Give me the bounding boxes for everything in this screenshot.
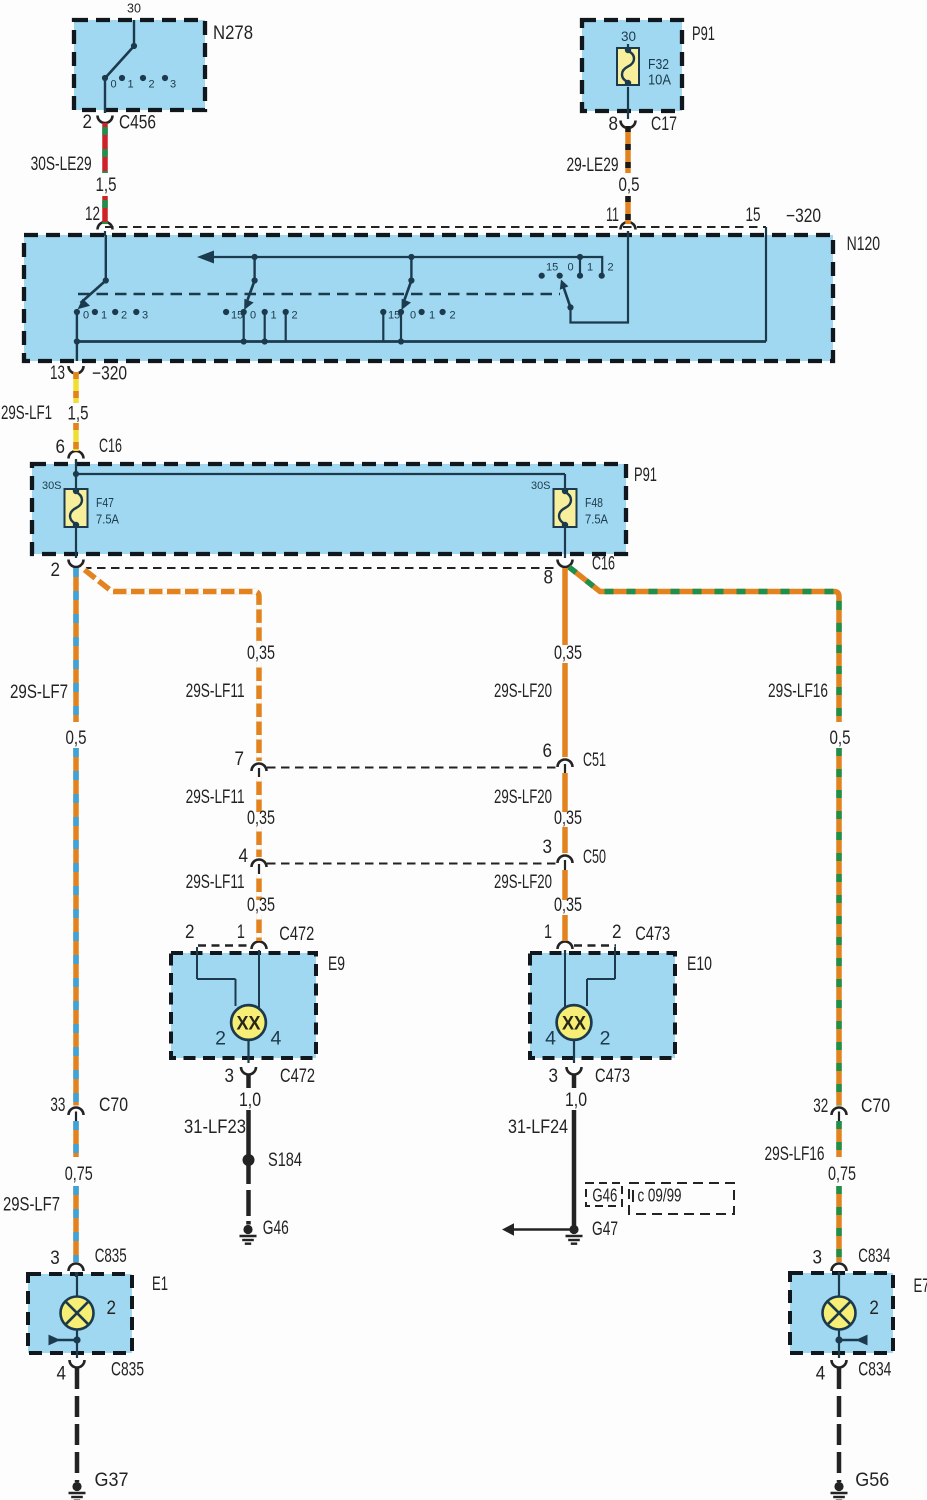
svg-text:0,5: 0,5 bbox=[619, 174, 640, 196]
svg-text:0,35: 0,35 bbox=[247, 807, 275, 829]
svg-text:C834: C834 bbox=[858, 1245, 890, 1267]
svg-text:3: 3 bbox=[50, 1247, 60, 1269]
svg-text:C17: C17 bbox=[651, 113, 677, 135]
svg-text:2: 2 bbox=[121, 310, 127, 322]
svg-text:G56: G56 bbox=[855, 1469, 889, 1491]
svg-text:1,5: 1,5 bbox=[96, 174, 117, 196]
svg-text:29S-LF11: 29S-LF11 bbox=[186, 680, 245, 702]
svg-text:1: 1 bbox=[271, 310, 277, 322]
svg-text:1,0: 1,0 bbox=[565, 1089, 587, 1111]
svg-text:0,35: 0,35 bbox=[247, 642, 275, 664]
svg-text:C51: C51 bbox=[583, 749, 606, 771]
svg-text:29S-LF16: 29S-LF16 bbox=[765, 1143, 825, 1165]
svg-text:3: 3 bbox=[142, 310, 148, 322]
svg-text:C835: C835 bbox=[111, 1359, 144, 1381]
svg-text:0,35: 0,35 bbox=[554, 807, 582, 829]
svg-text:C473: C473 bbox=[635, 923, 670, 945]
svg-text:7.5A: 7.5A bbox=[585, 513, 609, 527]
svg-text:C70: C70 bbox=[99, 1094, 128, 1116]
svg-text:3: 3 bbox=[170, 79, 176, 91]
svg-text:29S-LF1: 29S-LF1 bbox=[1, 402, 52, 424]
svg-text:C472: C472 bbox=[279, 923, 314, 945]
svg-text:10A: 10A bbox=[648, 73, 671, 89]
svg-text:P91: P91 bbox=[692, 23, 715, 45]
svg-text:8: 8 bbox=[609, 113, 619, 135]
svg-text:30: 30 bbox=[127, 2, 141, 16]
svg-text:G47: G47 bbox=[592, 1218, 618, 1240]
svg-text:N278: N278 bbox=[213, 22, 253, 44]
svg-text:−320: −320 bbox=[786, 205, 821, 227]
svg-text:N120: N120 bbox=[847, 233, 881, 255]
svg-text:2: 2 bbox=[51, 559, 61, 581]
svg-text:4: 4 bbox=[271, 1028, 282, 1050]
svg-text:G46: G46 bbox=[263, 1217, 289, 1239]
svg-text:C16: C16 bbox=[592, 553, 615, 575]
svg-text:0,5: 0,5 bbox=[66, 727, 87, 749]
svg-text:0,35: 0,35 bbox=[554, 642, 582, 664]
svg-text:1,0: 1,0 bbox=[239, 1089, 261, 1111]
svg-text:3: 3 bbox=[225, 1065, 235, 1087]
svg-text:12: 12 bbox=[85, 203, 100, 225]
svg-text:C70: C70 bbox=[861, 1095, 890, 1117]
svg-text:33: 33 bbox=[50, 1094, 65, 1116]
svg-text:2: 2 bbox=[608, 262, 614, 274]
svg-text:S184: S184 bbox=[268, 1149, 302, 1171]
svg-text:30: 30 bbox=[621, 29, 636, 44]
svg-text:0: 0 bbox=[410, 310, 416, 322]
svg-text:0,35: 0,35 bbox=[554, 894, 582, 916]
svg-text:0: 0 bbox=[250, 310, 256, 322]
svg-text:2: 2 bbox=[107, 1297, 117, 1319]
svg-text:31-LF24: 31-LF24 bbox=[508, 1116, 568, 1138]
svg-text:G46: G46 bbox=[592, 1186, 617, 1206]
svg-text:0: 0 bbox=[111, 79, 117, 91]
svg-text:15: 15 bbox=[231, 310, 243, 322]
svg-text:29S-LF7: 29S-LF7 bbox=[3, 1194, 60, 1216]
svg-text:29S-LF20: 29S-LF20 bbox=[494, 871, 552, 893]
svg-text:C834: C834 bbox=[858, 1359, 891, 1381]
svg-text:7.5A: 7.5A bbox=[96, 513, 120, 527]
svg-text:C473: C473 bbox=[595, 1065, 630, 1087]
svg-text:31-LF23: 31-LF23 bbox=[184, 1116, 246, 1138]
svg-text:0,75: 0,75 bbox=[65, 1163, 93, 1185]
svg-text:4: 4 bbox=[816, 1363, 826, 1385]
svg-text:1: 1 bbox=[544, 921, 552, 943]
svg-text:0,5: 0,5 bbox=[830, 727, 851, 749]
svg-text:29S-LF11: 29S-LF11 bbox=[186, 871, 245, 893]
svg-text:C50: C50 bbox=[583, 846, 606, 868]
svg-text:XX: XX bbox=[562, 1014, 586, 1035]
svg-text:C456: C456 bbox=[119, 112, 156, 134]
svg-text:7: 7 bbox=[235, 748, 245, 770]
svg-text:3: 3 bbox=[549, 1065, 559, 1087]
svg-text:E9: E9 bbox=[328, 953, 345, 975]
svg-text:F47: F47 bbox=[96, 496, 114, 510]
svg-text:−320: −320 bbox=[92, 363, 127, 385]
svg-text:11: 11 bbox=[606, 204, 619, 226]
svg-text:29S-LF11: 29S-LF11 bbox=[186, 786, 245, 808]
svg-text:2: 2 bbox=[149, 79, 155, 91]
svg-text:C16: C16 bbox=[99, 435, 122, 457]
svg-text:C472: C472 bbox=[280, 1065, 315, 1087]
svg-text:4: 4 bbox=[545, 1028, 556, 1050]
svg-text:2: 2 bbox=[292, 310, 298, 322]
svg-text:2: 2 bbox=[600, 1028, 611, 1050]
svg-text:1: 1 bbox=[587, 262, 593, 274]
svg-text:15: 15 bbox=[388, 310, 400, 322]
svg-text:E1: E1 bbox=[152, 1273, 168, 1295]
svg-text:8: 8 bbox=[544, 567, 554, 589]
svg-text:P91: P91 bbox=[634, 464, 657, 486]
svg-text:2: 2 bbox=[83, 111, 93, 133]
svg-text:3: 3 bbox=[543, 836, 553, 858]
svg-text:c 09/99: c 09/99 bbox=[638, 1186, 682, 1206]
svg-text:2: 2 bbox=[450, 310, 456, 322]
svg-text:29S-LF16: 29S-LF16 bbox=[768, 680, 828, 702]
svg-text:13: 13 bbox=[50, 362, 65, 384]
svg-text:1: 1 bbox=[237, 921, 245, 943]
svg-text:0,75: 0,75 bbox=[828, 1163, 856, 1185]
svg-text:6: 6 bbox=[543, 740, 553, 762]
svg-text:0,35: 0,35 bbox=[247, 894, 275, 916]
svg-text:2: 2 bbox=[215, 1028, 226, 1050]
svg-text:4: 4 bbox=[239, 845, 249, 867]
svg-text:29S-LF20: 29S-LF20 bbox=[494, 786, 552, 808]
svg-text:2: 2 bbox=[869, 1297, 879, 1319]
svg-text:1: 1 bbox=[128, 79, 134, 91]
svg-text:1: 1 bbox=[429, 310, 435, 322]
svg-text:30S: 30S bbox=[531, 480, 551, 492]
svg-text:32: 32 bbox=[813, 1095, 828, 1117]
svg-text:1: 1 bbox=[101, 310, 107, 322]
svg-text:0: 0 bbox=[568, 262, 574, 274]
svg-text:6: 6 bbox=[56, 436, 66, 458]
svg-text:E10: E10 bbox=[687, 953, 712, 975]
svg-text:G37: G37 bbox=[95, 1469, 129, 1491]
svg-text:1,5: 1,5 bbox=[68, 403, 89, 425]
svg-text:E7: E7 bbox=[914, 1275, 927, 1297]
svg-text:29S-LF20: 29S-LF20 bbox=[494, 680, 552, 702]
svg-text:3: 3 bbox=[813, 1247, 823, 1269]
svg-text:C835: C835 bbox=[95, 1245, 127, 1267]
svg-text:15: 15 bbox=[546, 262, 558, 274]
svg-text:F32: F32 bbox=[648, 57, 669, 73]
svg-text:F48: F48 bbox=[585, 496, 603, 510]
svg-text:30S-LE29: 30S-LE29 bbox=[31, 153, 92, 175]
svg-text:XX: XX bbox=[237, 1014, 261, 1035]
svg-text:2: 2 bbox=[612, 921, 622, 943]
svg-text:29S-LF7: 29S-LF7 bbox=[10, 681, 68, 703]
svg-text:4: 4 bbox=[57, 1363, 67, 1385]
svg-text:2: 2 bbox=[185, 921, 195, 943]
svg-text:15: 15 bbox=[746, 204, 761, 226]
svg-text:29-LE29: 29-LE29 bbox=[567, 154, 619, 176]
svg-text:30S: 30S bbox=[42, 480, 62, 492]
svg-text:0: 0 bbox=[83, 310, 89, 322]
